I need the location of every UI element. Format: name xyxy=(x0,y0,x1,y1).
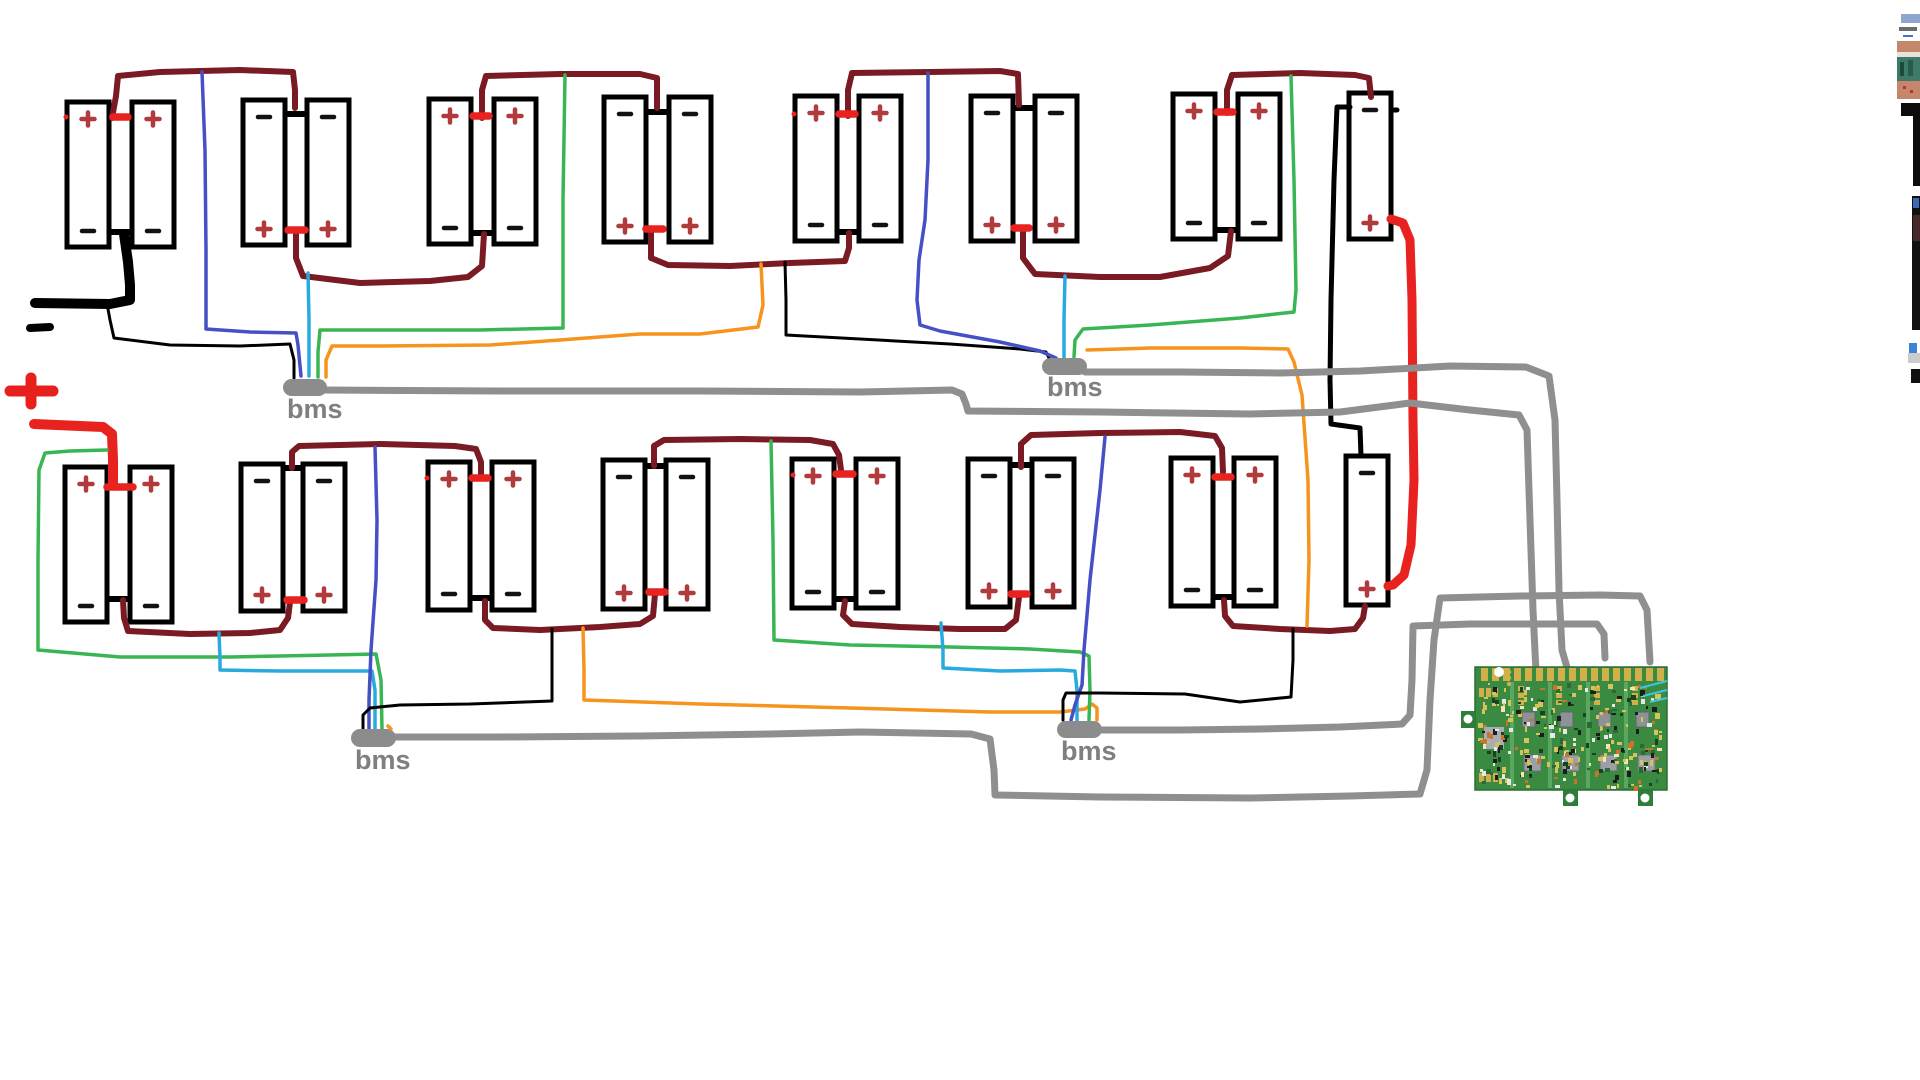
paint speck near B1 + xyxy=(64,115,69,120)
node pair B2 top (-) link xyxy=(282,465,304,471)
wire series W2 (pairT2+ to pairT3-) xyxy=(296,231,484,283)
battery cell B30 xyxy=(1346,456,1388,605)
node pair T6 top (-) link xyxy=(1012,105,1034,111)
node pairT5 + blob xyxy=(839,110,855,118)
node pair B1 bottom (-) link xyxy=(106,596,129,602)
battery cell B8 xyxy=(669,97,711,242)
wire sense black S14 (W10 tap to BMS3) xyxy=(363,629,552,729)
battery cell B24 xyxy=(792,459,834,608)
battery cell B11 xyxy=(971,96,1013,241)
node pairB6 + blob xyxy=(1011,590,1027,598)
wire sense green S3 (W3 tap to BMS1) xyxy=(318,75,565,377)
battery cell B2 xyxy=(132,102,174,247)
node pair T5 bottom (-) link xyxy=(836,229,858,235)
battery cell B21 xyxy=(492,462,534,610)
battery cell B28 xyxy=(1171,458,1213,606)
svg-text:bms: bms xyxy=(1047,372,1103,402)
node pair T4 top (-) link xyxy=(645,109,668,115)
BMS unit U3 connector blob xyxy=(351,729,396,747)
wire series W5 (pairT5+ to pairT6-) xyxy=(848,71,1019,116)
wire sense black S19 (W14 tap to BMS4) xyxy=(1063,629,1293,720)
battery cell B13 xyxy=(1173,94,1215,239)
wire series W1 (pairT1+ to pairT2-) xyxy=(112,70,295,118)
node pair T2 top (-) link xyxy=(285,111,307,117)
node pairB5 + blob xyxy=(836,470,853,478)
wire series W13 (pairB6- to pairB7+) xyxy=(1021,432,1223,472)
node pairT4 + blob xyxy=(646,225,663,233)
wire gray G4 (BMS4 to PCB) xyxy=(1098,624,1605,730)
battery cell B4 xyxy=(307,100,349,245)
wire sense green S16 (W11 tap to BMS4) xyxy=(771,441,1090,720)
wire sense blue S13 (W9 tap to BMS3) xyxy=(369,447,377,729)
battery cell B26 xyxy=(968,459,1010,607)
wire sense orange S15 (W10 tap to BMS4) xyxy=(583,628,1097,720)
node pair T3 bottom (-) link xyxy=(470,230,493,236)
battery cell B6 xyxy=(494,99,536,244)
battery cell B14 xyxy=(1238,94,1280,239)
black nub on B15 right edge xyxy=(1391,108,1397,113)
wire series W10 (pairB3- to pairB4+) xyxy=(485,594,655,630)
node pairB3 + blob xyxy=(472,474,488,482)
node pair B6 top (-) link xyxy=(1009,462,1031,468)
wire sense blue S1 (W1 tap to BMS1) xyxy=(202,72,301,376)
wire series W12 (pairB5- to pairB6+) xyxy=(843,597,1019,629)
battery cell B18 xyxy=(241,464,283,611)
browser window sliver at right edge xyxy=(1897,14,1920,383)
node pairB2 + blob xyxy=(287,596,304,604)
wire sense cyan S12 (W8 tap to BMS3) xyxy=(219,633,375,729)
battery cell B25 xyxy=(856,459,898,608)
battery cell B7 xyxy=(604,97,646,242)
node pair T7 bottom (-) link xyxy=(1214,227,1237,233)
wire sense cyan S8 (W6 tap to BMS2) xyxy=(1064,276,1065,357)
wire series W4 (pairT4+ to pairT5-) xyxy=(651,231,849,266)
minus symbol xyxy=(30,327,50,328)
wire sense blue S7 (W5 tap to BMS2) xyxy=(917,73,1056,358)
battery cell B22 xyxy=(603,460,645,609)
wire series W9 (pairB2- to pairB3+) xyxy=(292,444,481,475)
wire sense cyan S17 (W12 tap to BMS4) xyxy=(941,623,1077,720)
wire sense black S5 (neg lead to BMS1) xyxy=(108,309,294,378)
svg-text:bms: bms xyxy=(287,394,343,424)
wire series W6 (pairT6+ to pairT7-) xyxy=(1023,230,1231,277)
battery cell B9 xyxy=(795,96,837,241)
paint speck near B20 + xyxy=(425,476,430,481)
BMS unit U2 connector blob xyxy=(1042,358,1087,375)
battery cell B29 xyxy=(1234,458,1276,606)
battery cell B17 xyxy=(130,467,172,622)
node pair B5 bottom (-) link xyxy=(833,596,855,602)
node pair B7 bottom (-) link xyxy=(1212,594,1234,600)
wire black B15- to B30- (long black) xyxy=(1330,107,1361,456)
battery cell B23 xyxy=(666,460,708,609)
wire sense orange S4 (W4 tap to BMS1) xyxy=(326,264,763,377)
node pairT1 + blob xyxy=(113,113,128,121)
battery cell B3 xyxy=(243,100,285,245)
battery cell B15 xyxy=(1349,93,1391,239)
battery cell B5 xyxy=(429,99,471,244)
node pair T1 bottom (-) link xyxy=(109,229,133,235)
wire series W7 (pairT7+ to B15-) xyxy=(1227,73,1371,113)
node pairT7 + blob xyxy=(1217,108,1233,116)
node pairB1 + blob xyxy=(107,483,133,491)
wire gray G1 (BMS1 to PCB) xyxy=(322,390,1536,672)
wire gray G2 (BMS2 to PCB) xyxy=(1085,366,1570,678)
wire sense blue S18 (W13 tap to BMS4) xyxy=(1071,437,1105,720)
battery cell B10 xyxy=(859,96,901,241)
orange stub at BMS3 xyxy=(388,726,391,729)
wire sense orange S10 (BMS2 to W14 tap) xyxy=(1087,348,1309,626)
negative lead (thick black) from pairT1- xyxy=(35,234,130,304)
paint speck near B24 + xyxy=(791,473,796,478)
svg-text:bms: bms xyxy=(355,745,411,775)
wire sense black S6 (W4 tap to BMS2) xyxy=(785,262,1050,360)
wire series W3 (pairT3+ to pairT4-) xyxy=(482,74,657,118)
battery cell B19 xyxy=(303,464,345,611)
BMS unit U1 connector blob xyxy=(283,379,327,396)
plus symbol xyxy=(10,378,53,404)
node pairT2 + blob xyxy=(288,226,305,234)
wire series W8 (pairB1- to pairB2+) xyxy=(123,600,290,634)
BMS unit U4 connector blob xyxy=(1057,721,1102,738)
node pairB4 + blob xyxy=(649,588,665,596)
node pairT6 + blob xyxy=(1014,224,1029,232)
wire series W14 (pairB7- to B30-) xyxy=(1224,600,1365,631)
positive lead (thick red) to pairB1+ xyxy=(34,424,113,484)
node pairT3 + blob xyxy=(473,112,489,120)
wire sense cyan S2 (W2 tap to BMS1) xyxy=(308,273,309,376)
battery cell B27 xyxy=(1032,459,1074,607)
paint speck near B9 + xyxy=(792,112,797,117)
wire sense green S9 (W7 tap to BMS2) xyxy=(1074,76,1296,357)
node pair B4 top (-) link xyxy=(644,463,667,469)
PCB module U5 (photo of green BMS boards) xyxy=(1461,667,1667,806)
battery cell B16 xyxy=(65,467,107,622)
node pairB7 + blob xyxy=(1215,473,1231,481)
wire sense green S11 (pos lead to BMS3) xyxy=(38,450,382,729)
battery cell B20 xyxy=(428,462,470,610)
battery cell B12 xyxy=(1035,96,1077,241)
battery cell B1 xyxy=(67,102,109,247)
svg-text:bms: bms xyxy=(1061,736,1117,766)
node pair B3 bottom (-) link xyxy=(469,595,491,601)
positive link wire (thick red) B15+ to B30+ xyxy=(1388,219,1414,586)
wire series W11 (pairB4- to pairB5+) xyxy=(654,439,841,470)
wire gray G3 (BMS3 to PCB) xyxy=(394,595,1650,798)
